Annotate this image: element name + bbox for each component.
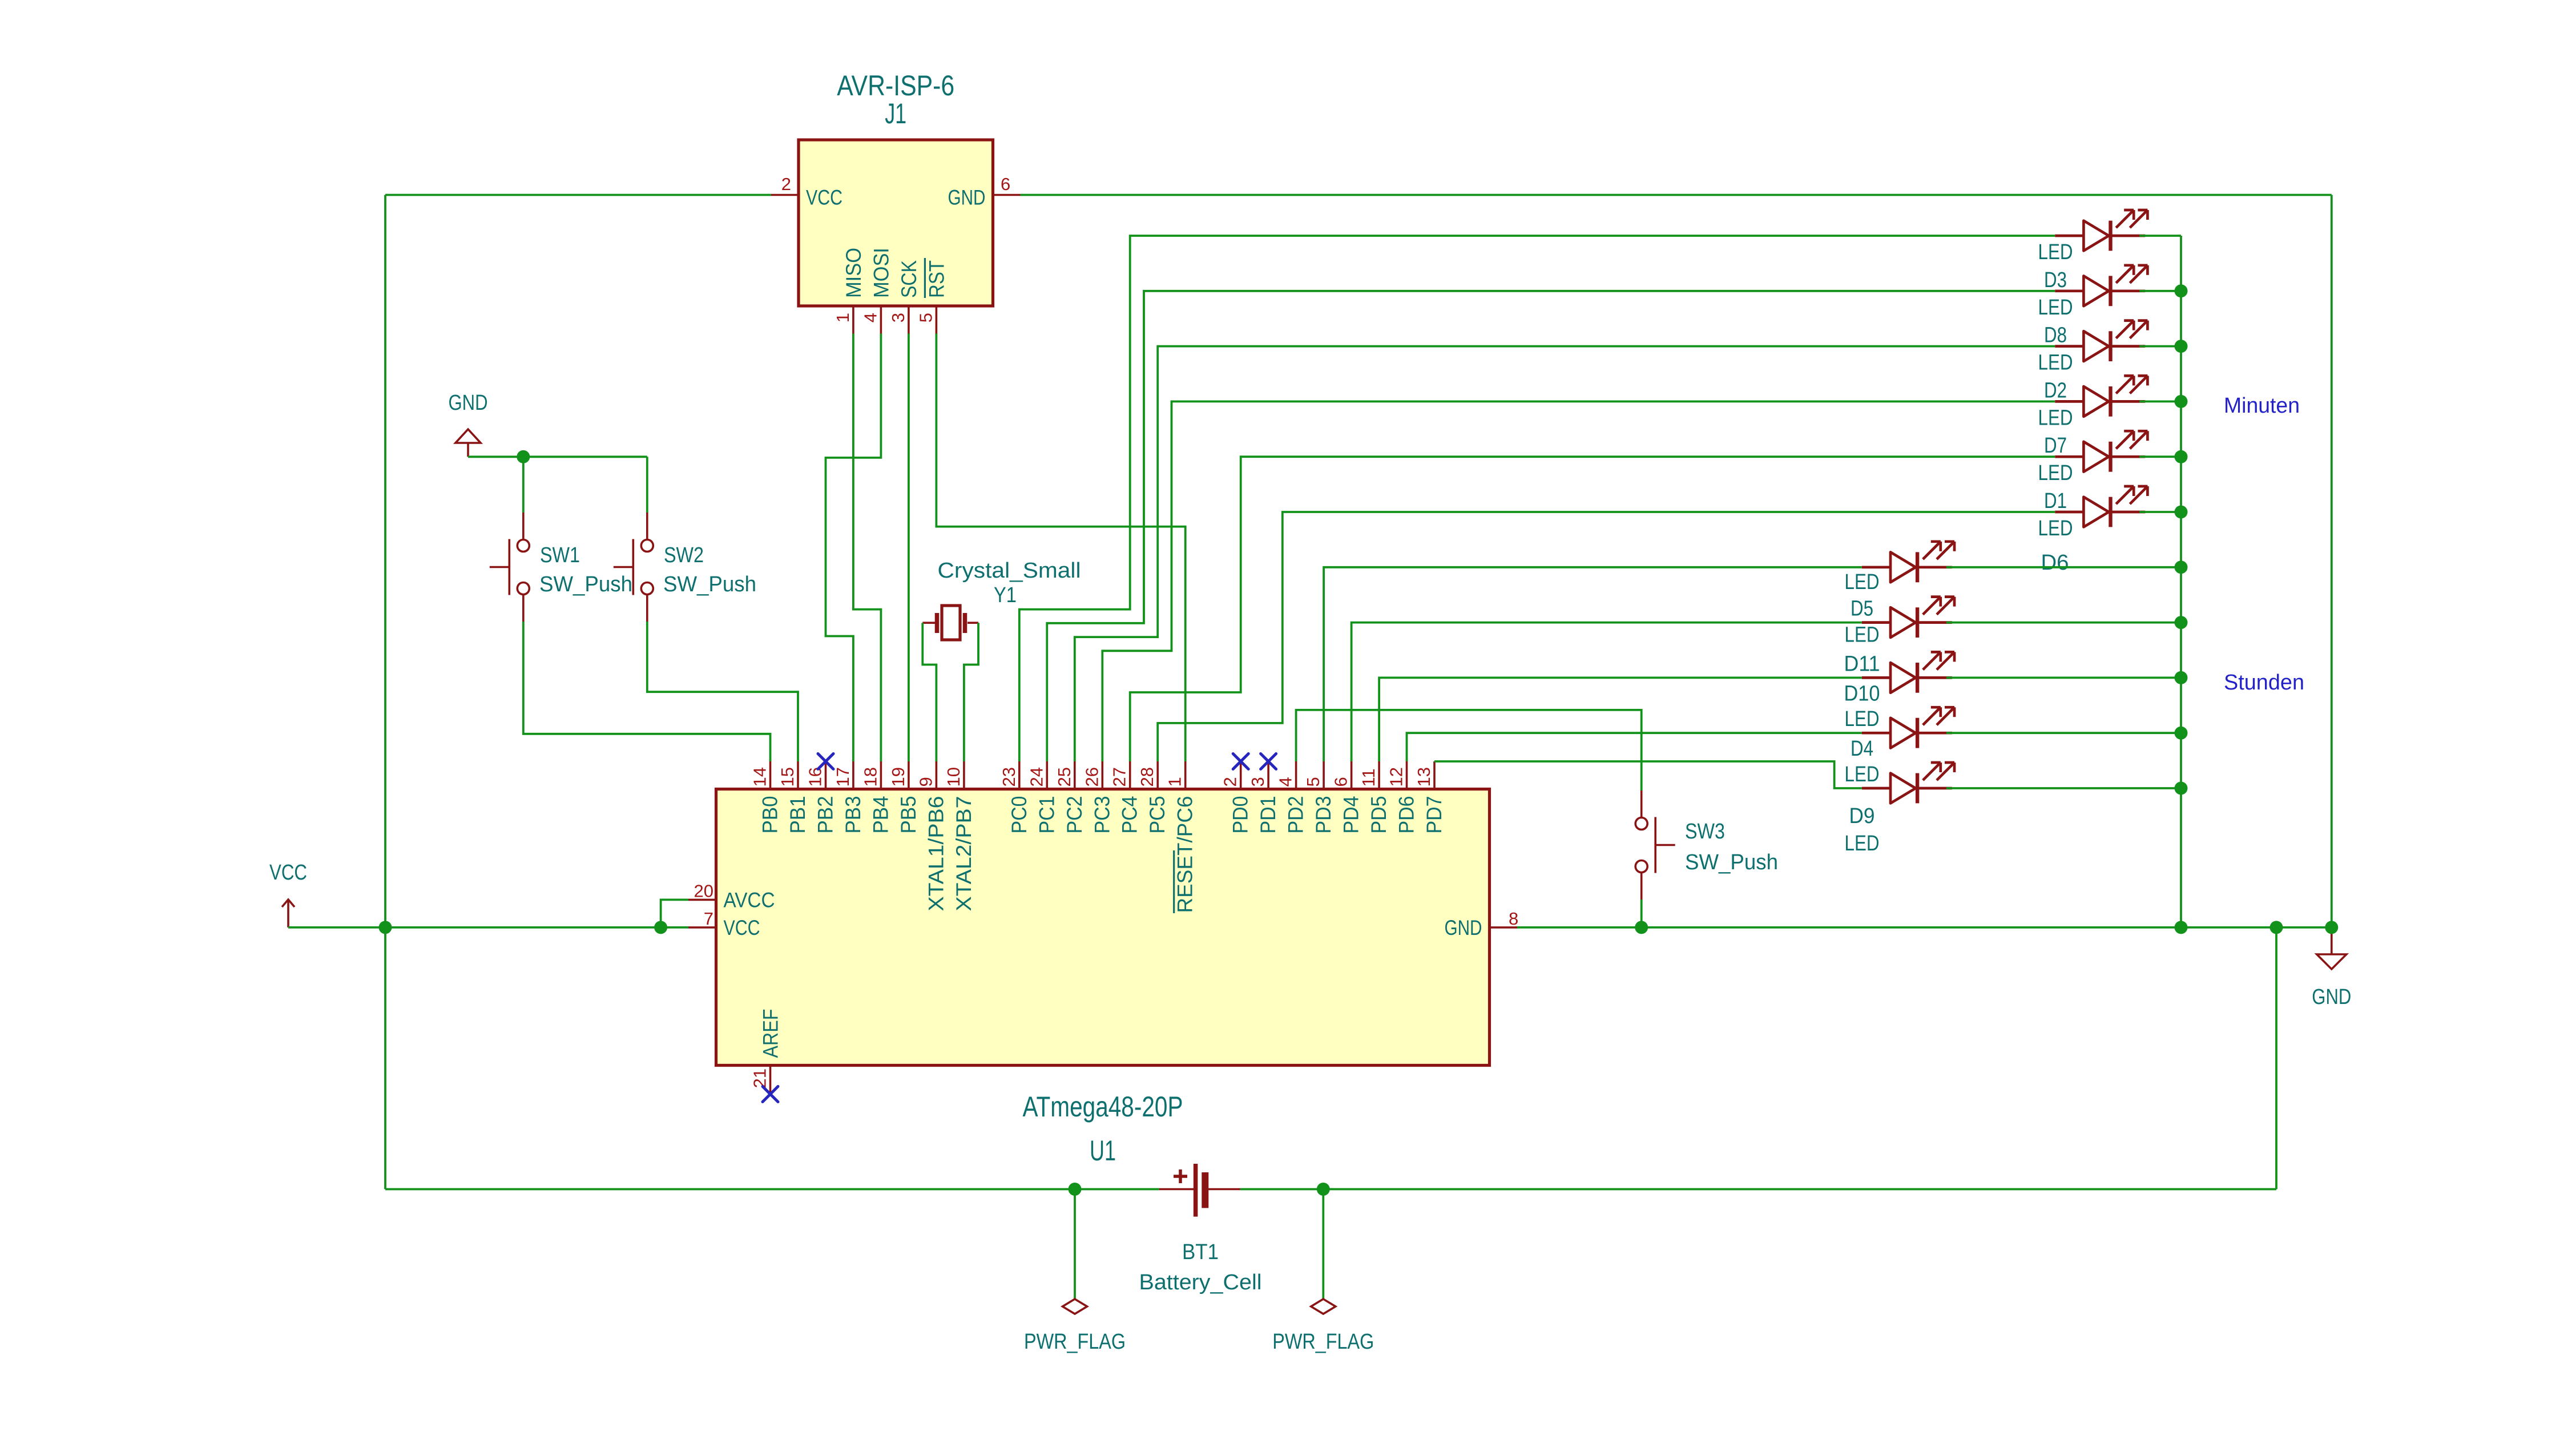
svg-text:RESET/PC6: RESET/PC6 <box>1174 796 1197 913</box>
svg-text:ATmega48-20P: ATmega48-20P <box>1023 1091 1183 1123</box>
svg-text:6: 6 <box>1331 777 1351 786</box>
U1 pin 10 XTAL2/PB7 <box>944 761 975 911</box>
svg-text:PD3: PD3 <box>1312 796 1335 834</box>
U1 pin 12 PD6 <box>1386 761 1418 834</box>
svg-text:D9: D9 <box>1849 804 1875 828</box>
svg-text:J1: J1 <box>885 98 906 130</box>
svg-text:D3: D3 <box>2044 268 2067 292</box>
junction LED bus <box>2175 395 2188 408</box>
svg-text:U1: U1 <box>1090 1135 1116 1167</box>
U1 pin 26 PC3 <box>1082 761 1114 834</box>
wire hours LED row 0 cathode <box>1946 566 2181 568</box>
junction battery drop GND <box>2270 921 2283 934</box>
svg-text:PD1: PD1 <box>1256 796 1280 834</box>
battery BT1 <box>1159 1164 1240 1217</box>
svg-text:9: 9 <box>916 777 936 786</box>
label D10 below hours row 2 <box>1844 681 1880 705</box>
U1 pin 21 AREF <box>750 1009 783 1094</box>
wire PD2 to SW3 <box>1296 710 1642 790</box>
svg-text:5: 5 <box>916 313 936 322</box>
LED minutes row 3 (D2) <box>2055 376 2147 416</box>
svg-text:PD4: PD4 <box>1340 796 1363 834</box>
wire J1 VCC to left rail <box>385 194 771 196</box>
svg-text:LED: LED <box>2038 296 2073 320</box>
svg-text:4: 4 <box>860 313 880 322</box>
switch SW1 <box>490 513 632 622</box>
U1 pin 3 PD1 <box>1248 761 1280 834</box>
junction LED bus <box>2175 560 2188 574</box>
label LED below hours row 1 <box>1845 623 1880 647</box>
LED hours row 3 <box>1862 707 1954 748</box>
wire hours LED row 1 cathode <box>1946 622 2181 624</box>
connector J1 AVR-ISP-6 body <box>799 140 993 306</box>
label LED row 3 <box>2038 406 2073 430</box>
label D4 below hours row 3 <box>1851 737 1873 761</box>
svg-text:13: 13 <box>1414 767 1434 786</box>
U1 pin 14 PB0 <box>750 761 782 834</box>
svg-text:SW3: SW3 <box>1685 820 1725 844</box>
wire PC0 to minutes LED row 0 <box>1019 236 2055 761</box>
no-connect PD1 <box>1261 754 1276 769</box>
label D3 <box>2044 268 2067 292</box>
LED minutes row 2 (D8) <box>2055 321 2147 361</box>
svg-text:VCC: VCC <box>806 186 842 209</box>
label D9 below hours row 4 <box>1849 804 1875 828</box>
svg-text:28: 28 <box>1137 767 1157 786</box>
svg-text:PB3: PB3 <box>841 796 865 834</box>
svg-text:SW_Push: SW_Push <box>539 572 632 596</box>
label D2 <box>2044 378 2067 402</box>
wire PD6 to hours LED row 3 <box>1407 733 1862 761</box>
svg-text:PB1: PB1 <box>786 796 809 834</box>
wire AVCC branch <box>661 900 688 927</box>
svg-text:20: 20 <box>694 881 713 901</box>
svg-text:VCC: VCC <box>269 861 307 885</box>
svg-text:D11: D11 <box>1844 652 1880 676</box>
junction battery minus <box>1317 1183 1330 1196</box>
U1 pin 2 PD0 <box>1220 761 1252 834</box>
wire battery rail left <box>385 1188 1159 1191</box>
svg-text:14: 14 <box>750 767 770 786</box>
U1 pin 28 PC5 <box>1137 761 1169 834</box>
svg-text:D5: D5 <box>1851 597 1873 621</box>
svg-text:SCK: SCK <box>897 260 921 298</box>
U1 pin 11 PD5 <box>1358 761 1390 834</box>
svg-text:LED: LED <box>2038 240 2073 264</box>
U1 pin 23 PC0 <box>999 761 1031 834</box>
svg-text:D8: D8 <box>2044 324 2067 348</box>
svg-text:26: 26 <box>1082 767 1102 786</box>
junction SW3 GND <box>1635 921 1648 934</box>
LED hours row 0 <box>1862 542 1954 582</box>
label LED row 0 <box>2038 240 2073 264</box>
svg-text:PB0: PB0 <box>759 796 782 834</box>
no-connect PD0 <box>1233 754 1248 769</box>
svg-text:PC2: PC2 <box>1063 796 1086 834</box>
wire PD5 to hours LED row 2 <box>1379 677 1862 761</box>
U1 pin 27 PC4 <box>1110 761 1142 834</box>
power symbol VCC left <box>269 861 307 927</box>
wire crystal left to PB6 <box>922 623 936 761</box>
label LED row 2 <box>2038 351 2073 375</box>
wire J1 GND to right <box>1021 194 2332 196</box>
U1 pin 7 VCC <box>688 909 760 939</box>
U1 pin 9 XTAL1/PB6 <box>916 761 948 911</box>
label LED row 5 <box>2038 517 2073 541</box>
junction right GND corner <box>2325 921 2338 934</box>
svg-text:PC0: PC0 <box>1007 796 1031 834</box>
svg-text:D2: D2 <box>2044 378 2067 402</box>
junction AVCC <box>654 921 667 934</box>
wire battery rail right <box>1240 1188 2276 1191</box>
svg-text:25: 25 <box>1054 767 1074 786</box>
wire GND bus <box>1517 926 2332 929</box>
label D11 above hours row 2 <box>1844 652 1880 676</box>
svg-text:LED: LED <box>2038 461 2073 485</box>
svg-text:RST: RST <box>925 260 948 298</box>
svg-text:GND: GND <box>2312 985 2351 1009</box>
J1 reference J1 <box>885 98 906 130</box>
svg-text:D7: D7 <box>2044 434 2067 458</box>
svg-text:LED: LED <box>1845 623 1880 647</box>
junction VCC rail <box>379 921 392 934</box>
mcu U1 ATmega48-20P body <box>716 789 1490 1066</box>
LED hours row 1 <box>1862 597 1954 638</box>
U1 pin 17 PB3 <box>833 761 865 834</box>
svg-text:11: 11 <box>1358 768 1378 786</box>
svg-text:PD7: PD7 <box>1422 796 1446 834</box>
svg-text:1: 1 <box>833 313 853 322</box>
wire SW1 to PB0 <box>523 622 771 761</box>
U1 pin 24 PC1 <box>1026 761 1058 834</box>
svg-text:17: 17 <box>833 767 853 786</box>
wire hours LED row 2 cathode <box>1946 677 2181 679</box>
wire PD4 to hours LED row 1 <box>1352 623 1862 761</box>
svg-text:Y1: Y1 <box>994 583 1017 607</box>
J1 pin 6 GND <box>948 174 1021 209</box>
wire right GND vertical <box>2331 195 2333 927</box>
BT1 value Battery_Cell <box>1139 1270 1262 1294</box>
svg-text:27: 27 <box>1110 767 1130 786</box>
svg-text:PD0: PD0 <box>1229 796 1252 834</box>
svg-text:PD5: PD5 <box>1367 796 1390 834</box>
svg-text:PB2: PB2 <box>814 796 837 834</box>
wire PC4 to minutes LED row 4 <box>1130 457 2055 761</box>
svg-text:LED: LED <box>1845 832 1880 856</box>
junction LED bus <box>2175 506 2188 519</box>
LED hours row 4 <box>1862 763 1954 803</box>
text Stunden <box>2224 671 2304 695</box>
svg-text:8: 8 <box>1509 909 1518 929</box>
wire RST to PC6 <box>936 334 1185 762</box>
svg-text:3: 3 <box>1248 777 1268 786</box>
svg-text:PB4: PB4 <box>869 796 892 834</box>
junction LED bus <box>2175 340 2188 353</box>
svg-text:MOSI: MOSI <box>869 248 893 298</box>
svg-text:Minuten: Minuten <box>2224 394 2300 418</box>
U1 pin 19 PB5 <box>888 761 920 834</box>
svg-text:Stunden: Stunden <box>2224 671 2304 695</box>
wire LED bus vertical <box>2180 236 2182 927</box>
svg-text:Battery_Cell: Battery_Cell <box>1139 1270 1262 1294</box>
svg-text:PC5: PC5 <box>1146 796 1169 834</box>
switch SW2 <box>614 513 756 622</box>
wire PD3 to hours LED row 0 <box>1324 567 1862 761</box>
power flag PWR_FLAG left <box>1024 1189 1126 1354</box>
svg-text:GND: GND <box>948 186 986 209</box>
svg-text:LED: LED <box>2038 406 2073 430</box>
wire minutes LED row 0 cathode <box>2139 235 2181 237</box>
svg-text:23: 23 <box>999 767 1019 786</box>
U1 pin 5 PD3 <box>1303 761 1335 834</box>
svg-text:D10: D10 <box>1844 681 1880 705</box>
svg-text:4: 4 <box>1276 777 1296 786</box>
svg-text:19: 19 <box>888 767 908 786</box>
wire battery drop <box>2275 927 2277 1189</box>
no-connect AREF <box>763 1087 778 1102</box>
svg-text:15: 15 <box>777 767 797 786</box>
U1 pin 20 AVCC <box>688 881 775 911</box>
svg-text:6: 6 <box>1001 174 1010 194</box>
svg-text:PC3: PC3 <box>1090 796 1114 834</box>
svg-text:PD6: PD6 <box>1395 796 1418 834</box>
svg-text:PC4: PC4 <box>1118 796 1142 834</box>
wire minutes LED row 3 cathode <box>2139 401 2181 403</box>
svg-text:D1: D1 <box>2044 489 2067 513</box>
wire PC2 to minutes LED row 2 <box>1075 346 2055 761</box>
text Minuten <box>2224 394 2300 418</box>
power flag PWR_FLAG right <box>1272 1189 1374 1354</box>
label LED row 4 <box>2038 461 2073 485</box>
wire SW1 top <box>522 457 525 513</box>
wire SW2 to PB1 <box>647 622 798 761</box>
svg-text:AREF: AREF <box>759 1009 783 1058</box>
svg-text:Crystal_Small: Crystal_Small <box>938 559 1081 583</box>
U1 pin 8 GND <box>1445 909 1519 939</box>
svg-text:PWR_FLAG: PWR_FLAG <box>1272 1330 1374 1354</box>
label D5 above hours row 1 <box>1851 597 1873 621</box>
U1 pin 6 PD4 <box>1331 761 1363 834</box>
svg-text:5: 5 <box>1303 777 1323 786</box>
U1 pin 13 PD7 <box>1414 761 1446 834</box>
no-connect PB2 <box>818 754 833 769</box>
svg-text:3: 3 <box>888 313 908 322</box>
wire GND to switches <box>468 455 647 458</box>
wire hours LED row 3 cathode <box>1946 732 2181 734</box>
crystal Y1 <box>922 606 978 640</box>
label D7 <box>2044 434 2067 458</box>
junction LED bus <box>2175 284 2188 297</box>
svg-text:24: 24 <box>1026 767 1046 786</box>
svg-text:PB5: PB5 <box>897 796 920 834</box>
label D6 <box>2041 551 2069 575</box>
svg-text:GND: GND <box>1445 916 1482 939</box>
svg-text:12: 12 <box>1386 767 1406 786</box>
wire MISO to PB4 <box>853 334 881 762</box>
J1 pin 4 MOSI <box>860 248 893 334</box>
LED minutes row 5 (D1) <box>2055 486 2147 527</box>
wire SW3 to GND bus <box>1640 900 1643 927</box>
BT1 reference BT1 <box>1182 1240 1219 1264</box>
wire crystal right to PB7 <box>964 623 978 761</box>
J1 pin 3 SCK <box>888 260 921 334</box>
svg-text:VCC: VCC <box>724 916 760 939</box>
J1 pin 5 RST <box>916 258 948 334</box>
svg-text:18: 18 <box>860 767 880 786</box>
label D8 <box>2044 324 2067 348</box>
wire PC3 to minutes LED row 3 <box>1102 401 2055 761</box>
svg-text:AVCC: AVCC <box>724 888 775 911</box>
junction LED bus <box>2175 782 2188 795</box>
svg-text:XTAL2/PB7: XTAL2/PB7 <box>952 796 975 911</box>
svg-text:7: 7 <box>704 909 713 929</box>
wire minutes LED row 2 cathode <box>2139 345 2181 348</box>
U1 pin 25 PC2 <box>1054 761 1086 834</box>
junction LED bus <box>2175 727 2188 740</box>
svg-text:LED: LED <box>2038 517 2073 541</box>
svg-text:16: 16 <box>805 767 825 786</box>
label LED above hours row 3 <box>1845 707 1880 731</box>
LED minutes row 4 (D7) <box>2055 431 2147 471</box>
svg-text:SW2: SW2 <box>664 543 704 567</box>
power symbol GND upper-left <box>449 391 488 457</box>
junction LED bus <box>2175 450 2188 463</box>
label LED above hours row 4 <box>1845 763 1880 786</box>
svg-text:LED: LED <box>1845 763 1880 786</box>
wire left VCC rail vertical <box>384 195 386 1189</box>
U1 pin 4 PD2 <box>1276 761 1308 834</box>
wire VCC horizontal <box>288 926 688 929</box>
svg-text:D4: D4 <box>1851 737 1873 761</box>
junction LED bus <box>2175 616 2188 629</box>
LED minutes row 0 <box>2055 210 2147 251</box>
wire hours LED row 4 cathode <box>1946 787 2181 789</box>
U1 pin 16 PB2 <box>805 761 837 834</box>
switch SW3 <box>1635 790 1778 900</box>
wire MOSI to PB3 <box>826 334 881 762</box>
svg-text:D6: D6 <box>2041 551 2069 575</box>
wire PC5 to minutes LED row 5 <box>1158 512 2055 761</box>
J1 pin 2 VCC <box>771 174 842 209</box>
svg-text:SW1: SW1 <box>540 543 580 567</box>
wire minutes LED row 4 cathode <box>2139 455 2181 458</box>
junction LED bus GND <box>2175 921 2188 934</box>
label LED row 1 <box>2038 296 2073 320</box>
junction battery plus <box>1069 1183 1082 1196</box>
svg-text:1: 1 <box>1165 777 1185 786</box>
label LED below hours row 0 <box>1845 570 1880 594</box>
svg-text:LED: LED <box>1845 570 1880 594</box>
svg-text:GND: GND <box>449 391 488 415</box>
U1 pin 1 RESET/PC6 <box>1165 761 1197 913</box>
wire minutes LED row 5 cathode <box>2139 511 2181 513</box>
wire PC1 to minutes LED row 1 <box>1047 291 2055 761</box>
junction SW1 GND <box>517 450 530 463</box>
U1 pin 15 PB1 <box>777 761 809 834</box>
J1 value AVR-ISP-6 <box>837 70 954 102</box>
svg-text:SW_Push: SW_Push <box>663 572 756 596</box>
svg-text:LED: LED <box>1845 707 1880 731</box>
Y1 reference Y1 <box>994 583 1017 607</box>
U1 pin 18 PB4 <box>860 761 892 834</box>
wire PD7 to hours LED row 4 <box>1434 761 1862 788</box>
J1 pin 1 MISO <box>833 248 865 334</box>
svg-text:PC1: PC1 <box>1035 796 1058 834</box>
svg-text:10: 10 <box>944 767 964 786</box>
wire minutes LED row 1 cathode <box>2139 290 2181 292</box>
svg-text:XTAL1/PB6: XTAL1/PB6 <box>924 796 948 911</box>
svg-text:SW_Push: SW_Push <box>1685 850 1778 874</box>
label D1 <box>2044 489 2067 513</box>
junction LED bus <box>2175 671 2188 684</box>
svg-text:BT1: BT1 <box>1182 1240 1219 1264</box>
svg-text:PWR_FLAG: PWR_FLAG <box>1024 1330 1126 1354</box>
LED hours row 2 <box>1862 652 1954 692</box>
svg-text:PD2: PD2 <box>1284 796 1308 834</box>
Y1 value Crystal_Small <box>938 559 1081 583</box>
label LED below D9 <box>1845 832 1880 856</box>
wire SW2 top <box>646 457 648 513</box>
LED minutes row 1 (D3) <box>2055 265 2147 306</box>
svg-text:AVR-ISP-6: AVR-ISP-6 <box>837 70 954 102</box>
power symbol GND right <box>2312 927 2351 1009</box>
svg-text:2: 2 <box>1220 777 1240 786</box>
svg-text:LED: LED <box>2038 351 2073 375</box>
svg-text:21: 21 <box>750 1068 770 1088</box>
svg-text:MISO: MISO <box>842 248 865 298</box>
U1 value ATmega48-20P <box>1023 1091 1183 1123</box>
wire SCK to PB5 <box>908 334 910 762</box>
U1 reference U1 <box>1090 1135 1116 1167</box>
svg-text:2: 2 <box>781 174 791 194</box>
